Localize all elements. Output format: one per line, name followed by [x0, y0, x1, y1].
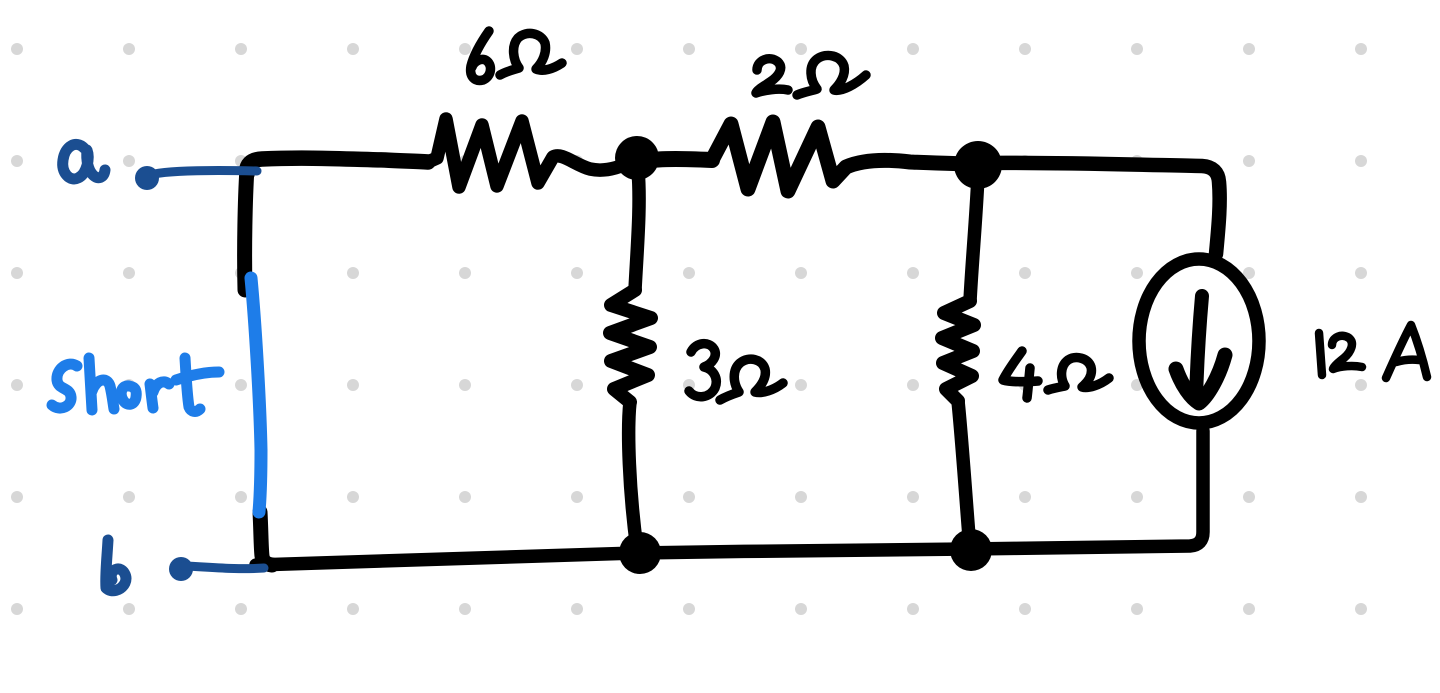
- short label: [52, 358, 219, 411]
- wire: bottom-left horizontal segment: [256, 553, 638, 565]
- resistor 2ohm zigzag: [712, 122, 976, 191]
- label 2 ohm: [756, 55, 866, 95]
- wire: top-left horizontal segment: [247, 158, 428, 174]
- label 3 ohm: [689, 344, 783, 400]
- junction node 2 (top right): [954, 141, 1002, 189]
- node b label: [106, 540, 126, 591]
- label 4 ohm: [1003, 351, 1109, 398]
- resistor 6ohm zigzag: [428, 119, 636, 187]
- resistor 4ohm zigzag: [942, 301, 974, 401]
- wire: 4ohm down to bottom node: [958, 401, 970, 549]
- wire: bottom-middle horizontal segment: [638, 549, 969, 553]
- wire: left vertical segment from node a down to short: [245, 168, 247, 290]
- wire: lower-left vertical stub below short: [260, 512, 272, 565]
- junction node 3 (bottom middle): [619, 532, 661, 574]
- label 12 A: [1319, 325, 1427, 378]
- wire: vertical from node1 down to 3ohm: [635, 170, 639, 290]
- junction node 1 (top middle): [615, 136, 659, 180]
- junction node 4 (bottom right): [950, 529, 992, 571]
- wire: top-right horizontal segment to corner: [980, 163, 1220, 254]
- wire: 3ohm down to bottom node: [629, 402, 637, 549]
- current source 12A circle: [1139, 259, 1259, 423]
- node b terminal dot and lead: [169, 557, 264, 581]
- wire: bottom-right horizontal segment up to source: [969, 431, 1203, 549]
- short jumper wire (blue): [251, 278, 261, 512]
- node a label: [63, 144, 105, 179]
- wire: vertical from node2 down to 4ohm: [970, 176, 978, 301]
- label 6 ohm: [471, 31, 562, 80]
- resistor 3ohm zigzag: [610, 290, 651, 402]
- node a terminal dot and lead: [135, 166, 257, 190]
- wire: segment node1 to 2ohm: [644, 159, 712, 161]
- current source arrow: [1176, 296, 1225, 403]
